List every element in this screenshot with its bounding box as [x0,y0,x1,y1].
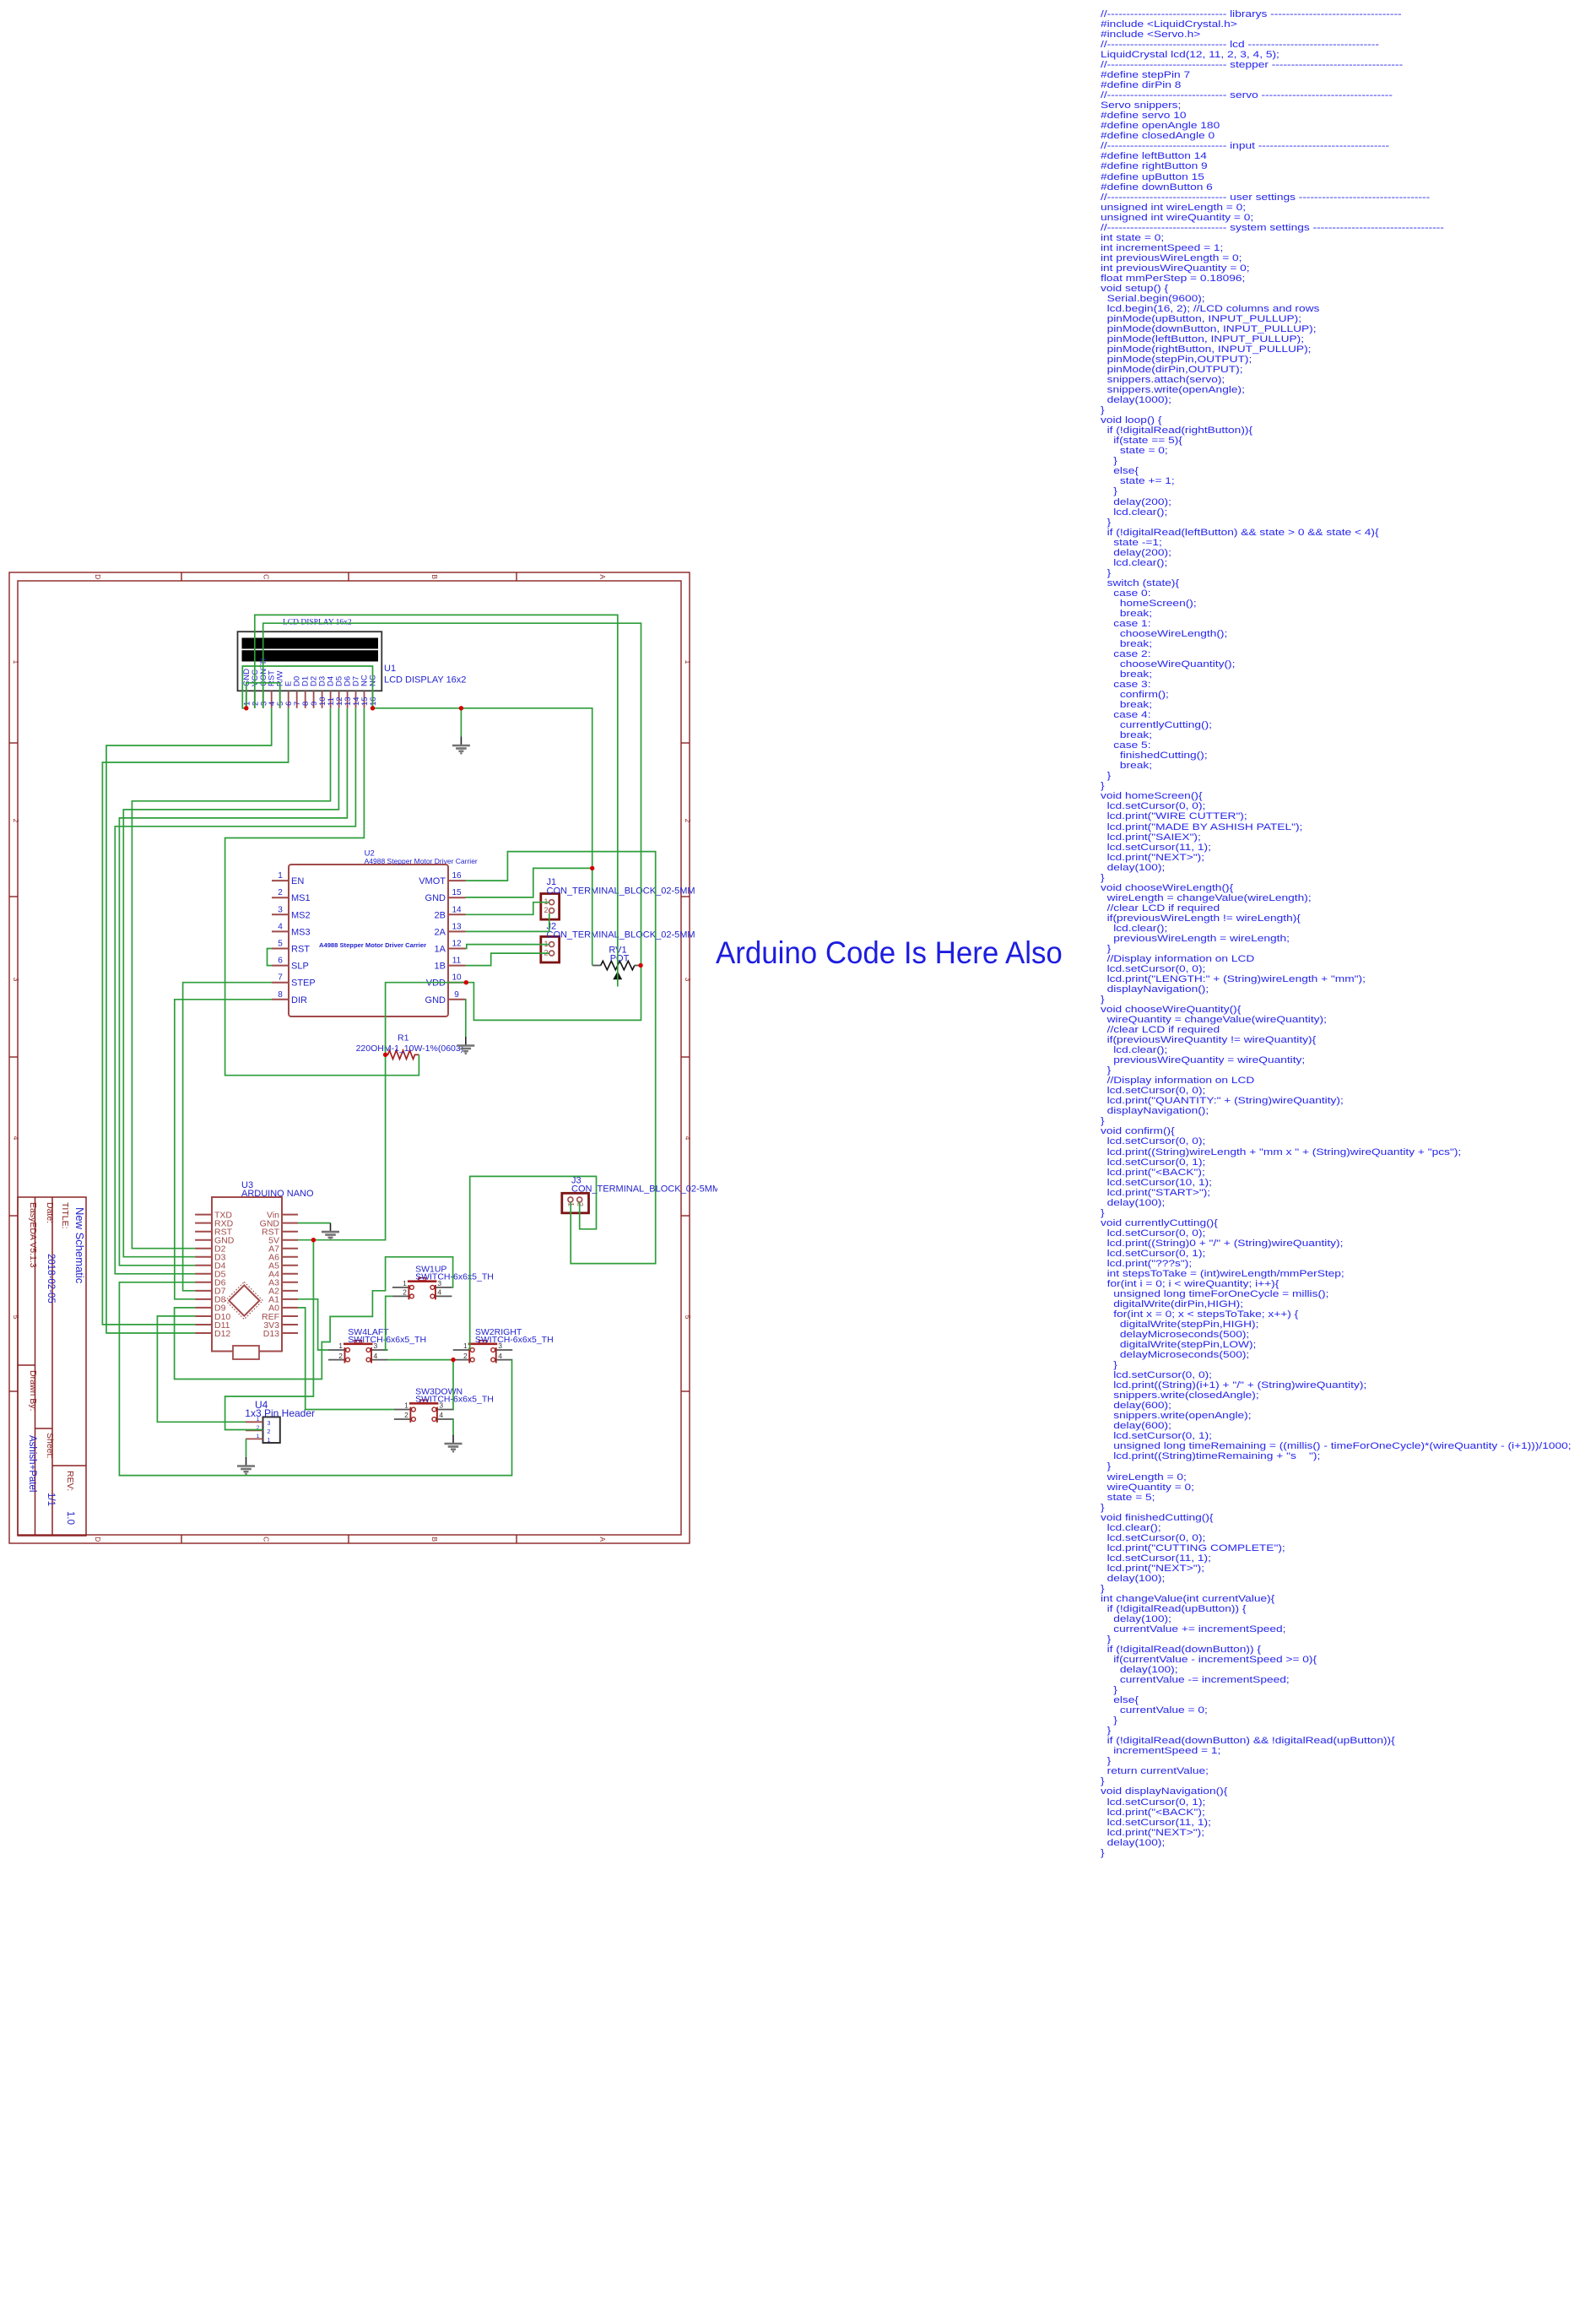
wire U3 A1 to SW4LAFT pin1 [298,1299,328,1350]
svg-text:Sheet:: Sheet: [45,1433,55,1458]
svg-text:4: 4 [278,922,283,931]
svg-text:1: 1 [338,1342,343,1350]
chip U3 body [212,1197,282,1352]
svg-text:MS2: MS2 [291,910,311,920]
svg-text:2A: 2A [435,927,446,937]
ground U3 GND [322,1223,339,1240]
lcd U1 body [238,631,382,691]
svg-text:D13: D13 [263,1329,279,1339]
svg-text:SWITCH-6x6x5_TH: SWITCH-6x6x5_TH [415,1394,494,1404]
sheet border frame [9,572,690,1543]
wire LCD pin15 to R1 right [225,708,419,1076]
svg-text:10: 10 [452,973,462,983]
terminal block J3 body [562,1193,589,1213]
svg-text:Drawn By:: Drawn By: [28,1370,38,1411]
svg-text:VDD: VDD [426,978,446,989]
svg-text:16: 16 [452,871,462,881]
chip U2 left pin names and numbers [278,871,316,1006]
lcd U1 pin names [242,658,378,686]
wire bus branch to U2 GND pin15 [466,868,592,897]
lcd U1 pin stubs [246,691,373,708]
wire LCD pin6 E to U3 D11 [102,708,288,1325]
chip U3 mcu diamond [225,1282,262,1319]
big caption text [716,938,1063,969]
wire U2 VMOT to J3 pin1 [466,852,656,1264]
switch SW1UP [392,1265,494,1300]
ground SW3 pin4 [445,1435,463,1452]
svg-text:1B: 1B [435,962,446,972]
svg-text:2: 2 [544,906,548,914]
terminal block J1 body [541,894,560,920]
wire J3 pin2 to SW2RIGHT pin1 [470,1176,597,1350]
svg-text:CON_TERMINAL_BLOCK_02-5MM: CON_TERMINAL_BLOCK_02-5MM [547,930,695,940]
wire LCD pin12 D5 to U3 D3 [123,708,338,1257]
wire U3 D9 to SW1UP pin3 [175,1257,453,1380]
switch SW2RIGHT [453,1327,554,1363]
wire U3 D10 to U4 pin3 [157,1316,246,1422]
ground U2 pin9 [457,1037,474,1054]
svg-text:2018-02-05: 2018-02-05 [46,1254,56,1304]
wire LCD pin4 RST to U3 D12 [106,708,272,1333]
switch SW3DOWN [394,1386,494,1423]
svg-text:SWITCH-6x6x5_TH: SWITCH-6x6x5_TH [415,1272,494,1282]
svg-text:Ashish+Patel: Ashish+Patel [27,1435,37,1492]
junction dots [244,706,643,1362]
svg-text:C: C [262,1537,270,1542]
svg-text:REV:: REV: [65,1471,75,1491]
svg-text:EN: EN [291,876,304,886]
svg-text:GND: GND [425,893,446,903]
wire U2 1A pin12 to J2 pin1 [466,945,549,949]
svg-text:D: D [94,1537,102,1542]
svg-text:11: 11 [452,957,462,966]
svg-text:C: C [262,574,270,579]
svg-text:2: 2 [463,1352,468,1360]
wire SW3DOWN pin4 ground drop [452,1419,454,1435]
wire LCD pin11 D4 to U3 D2 [132,708,330,1249]
svg-text:3: 3 [268,1421,271,1427]
svg-text:SWITCH-6x6x5_TH: SWITCH-6x6x5_TH [348,1335,426,1345]
chip U2 body [289,865,448,1016]
svg-text:A: A [598,574,607,579]
svg-text:1: 1 [257,1434,260,1439]
svg-text:15: 15 [452,888,462,897]
svg-text:5: 5 [684,1315,692,1320]
svg-text:A: A [598,1537,607,1542]
svg-text:RST: RST [291,945,310,955]
wire LCD pin14 D7 to U3 D5 [115,708,355,1274]
svg-text:MS3: MS3 [291,927,311,937]
resistor R1 labels [356,1033,464,1054]
svg-text:1: 1 [268,1438,271,1444]
wire U2 DIR to U3 D8 [175,1000,272,1299]
chip U3 right pin names [260,1210,280,1338]
svg-text:14: 14 [452,905,462,914]
wire LCD pin13 D6 to U3 D4 [119,708,347,1266]
terminal block J3 labels [571,1176,720,1195]
svg-text:ARDUINO NANO: ARDUINO NANO [241,1189,314,1199]
svg-text:4: 4 [498,1352,502,1360]
wire U2 2A pin13 to J1 pin2 [466,913,549,932]
svg-text:CON_TERMINAL_BLOCK_02-5MM: CON_TERMINAL_BLOCK_02-5MM [571,1184,717,1195]
title block text EasyEDA V5.1.3 [28,1202,38,1268]
wire SW4LAFT pin4 to SW2RIGHT pin2 [387,1359,453,1361]
header U4 body [263,1417,280,1443]
svg-text:8: 8 [278,990,283,1000]
svg-text:2: 2 [338,1352,343,1360]
header U4 pin stubs [246,1422,263,1439]
svg-text:B: B [430,1537,439,1542]
svg-text:4: 4 [439,1411,443,1419]
wire LCD pin2 VCC to pot wiper [255,615,618,986]
svg-text:New Schematic: New Schematic [73,1207,86,1284]
svg-text:2: 2 [12,819,20,823]
title block text 1/1 [46,1493,56,1506]
svg-text:3: 3 [684,978,692,982]
svg-text:1/1: 1/1 [46,1493,56,1506]
svg-text:2B: 2B [435,910,446,920]
potentiometer RV1 labels [609,945,629,963]
svg-text:VMOT: VMOT [419,876,446,886]
svg-text:DIR: DIR [291,995,307,1006]
chip U2 pin stubs [272,881,466,1000]
wire U3 GND to ground [298,1222,331,1224]
svg-text:4: 4 [684,1136,692,1141]
wire SW2 pin2 junction down to SW3DOWN pin3 [452,1360,454,1410]
wire LCD pin5 RW to pin1 [246,683,280,708]
resistor R1 symbol [386,1050,419,1059]
svg-text:2: 2 [278,888,283,897]
title block text REV [65,1471,75,1491]
svg-text:A4988 Stepper Motor Driver Car: A4988 Stepper Motor Driver Carrier [365,857,478,865]
svg-text:MS1: MS1 [291,893,311,903]
svg-text:9: 9 [454,990,459,1000]
svg-text:1: 1 [404,1401,408,1410]
svg-text:D: D [94,574,102,579]
svg-text:1.0: 1.0 [65,1511,75,1525]
svg-text:B: B [430,574,439,579]
svg-text:3: 3 [12,978,20,982]
wire bus ground drop [460,708,462,737]
wire U2 1B pin11 to J2 pin2 [466,953,549,966]
svg-text:LCD DISPLAY 16x2: LCD DISPLAY 16x2 [384,675,466,686]
wire SW1UP pin2 to SW4LAFT pin3 [386,1296,392,1350]
svg-text:POT: POT [610,954,630,964]
svg-text:1A: 1A [435,945,446,955]
svg-text:2: 2 [684,819,692,823]
svg-text:CON_TERMINAL_BLOCK_02-5MM: CON_TERMINAL_BLOCK_02-5MM [547,886,695,896]
svg-text:1: 1 [463,1342,468,1350]
title block text 1.0 [65,1511,75,1525]
terminal block J2 body [541,936,560,962]
potentiometer RV1 symbol [592,961,639,979]
chip U3 usb box [233,1346,259,1359]
wire U2 RST SLP link [268,949,273,966]
wire U3 A0 to SW3DOWN pin1 [298,1308,394,1410]
svg-text:12: 12 [452,940,462,949]
lcd U1 net label LCD DISPLAY 16x2 [283,619,352,627]
title block text 2018-02-05 [46,1254,56,1304]
svg-text:1: 1 [278,871,283,881]
svg-text:13: 13 [452,922,462,931]
wire 5V branch to U4 pin2 [225,1240,314,1430]
svg-text:U1: U1 [384,664,396,674]
terminal block J1 labels [547,877,695,896]
wire LCD pin3 CONTR to pot right and VDD leg [263,623,641,1020]
svg-text:STEP: STEP [291,978,316,989]
ground near LCD bus [452,737,470,754]
svg-text:TITLE:: TITLE: [60,1202,70,1229]
svg-text:SLP: SLP [291,962,309,972]
title block box [18,1197,86,1536]
wire U4 pin1 ground drop [246,1439,247,1457]
lcd U1 pin numbers [242,697,378,706]
header U4 pin numbers [257,1417,271,1444]
svg-text:6: 6 [278,957,283,966]
title block text Drawn By [28,1370,38,1411]
wire U2 GND pin9 drop [465,1000,467,1037]
chip U2 refdes [365,849,478,866]
svg-text:1: 1 [403,1279,407,1287]
switch SW4LAFT [328,1327,426,1363]
title block text New Schematic [73,1207,86,1284]
svg-text:A4988 Stepper Motor Driver Car: A4988 Stepper Motor Driver Carrier [319,941,426,949]
title block text Ashish+Patel [27,1435,37,1492]
svg-text:1x3 Pin Header: 1x3 Pin Header [245,1407,315,1419]
svg-text:2: 2 [403,1288,407,1297]
svg-text:1: 1 [12,660,20,664]
svg-text:GND: GND [425,995,446,1006]
svg-text:7: 7 [278,973,283,983]
svg-text:5: 5 [278,940,283,949]
chip U2 inner label [319,941,426,949]
title block text TITLE [60,1202,70,1229]
svg-text:5: 5 [12,1315,20,1320]
title block text Sheet [45,1433,55,1458]
svg-text:Date:: Date: [45,1202,55,1223]
wire LCD pin16 bus to pot left [373,708,592,966]
chip U3 refdes [241,1180,314,1199]
chip U3 pin stubs [195,1215,298,1333]
svg-text:220OHM-1_10W-1%(0603): 220OHM-1_10W-1%(0603) [356,1043,464,1054]
svg-text:3: 3 [278,905,283,914]
svg-text:4: 4 [12,1136,20,1141]
svg-text:4: 4 [374,1352,378,1360]
wire U2 VDD to 5V rail [298,983,467,1240]
svg-text:SWITCH-6x6x5_TH: SWITCH-6x6x5_TH [475,1335,554,1345]
wire U2 STEP to U3 D7 [183,983,272,1291]
terminal block J2 labels [547,922,695,940]
title block text Date [45,1202,55,1223]
wire U3 D6 to bottom bus to SW2RIGHT pin4 [119,1282,511,1476]
lcd U1 refdes [384,664,466,686]
svg-text:16: 16 [369,697,378,706]
chip U3 left pin names [214,1210,235,1338]
svg-text:2: 2 [404,1411,408,1419]
chip U2 right pin names and numbers [419,871,462,1006]
wire LCD pin1 loop to pin16 [242,666,372,708]
svg-text:1: 1 [684,660,692,664]
header U4 refdes [245,1399,315,1419]
svg-text:R1: R1 [398,1033,409,1043]
frame zone letters and numbers [12,574,692,1542]
wire U2 2B pin14 to J1 pin1 [466,903,549,915]
arduino source code listing [1101,9,1572,1858]
ground U4 pin1 [237,1457,255,1474]
svg-text:2: 2 [268,1429,271,1435]
svg-text:4: 4 [437,1288,441,1297]
svg-text:EasyEDA V5.1.3: EasyEDA V5.1.3 [28,1202,38,1268]
svg-text:D12: D12 [214,1329,230,1339]
